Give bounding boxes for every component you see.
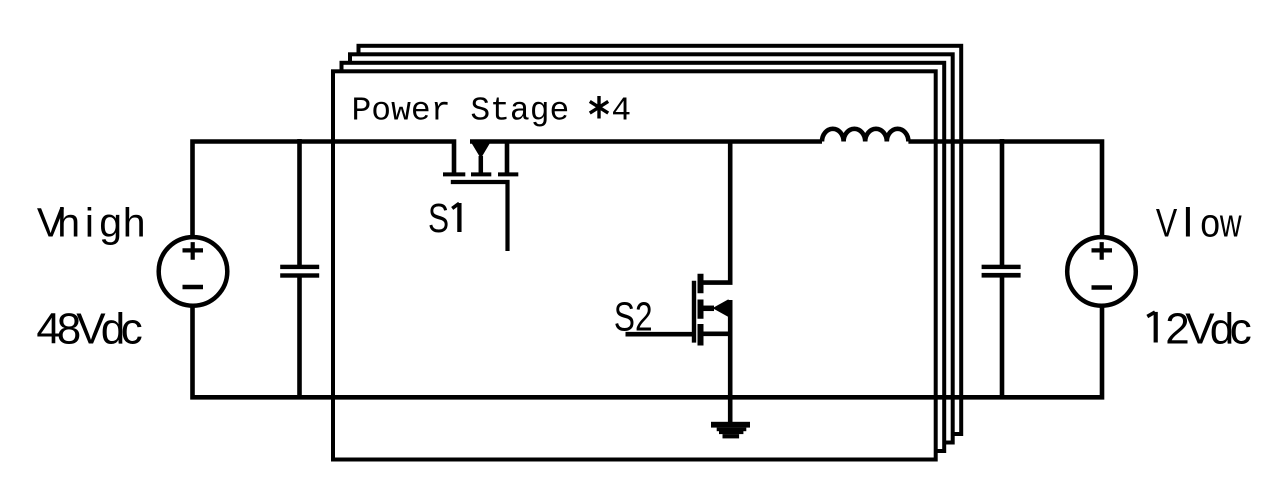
svg-text:Power Stage: Power Stage [352, 93, 570, 130]
svg-text:w: w [1219, 201, 1242, 245]
svg-text:Vhigh: Vhigh [37, 200, 146, 246]
svg-text:2Vdc: 2Vdc [1165, 304, 1252, 353]
svg-text:o: o [1200, 202, 1220, 246]
svg-text:4: 4 [611, 93, 631, 130]
svg-text:48Vdc: 48Vdc [36, 305, 142, 354]
svg-text:S: S [428, 195, 449, 241]
svg-text:V: V [1156, 200, 1177, 245]
svg-text:S2: S2 [614, 293, 653, 339]
